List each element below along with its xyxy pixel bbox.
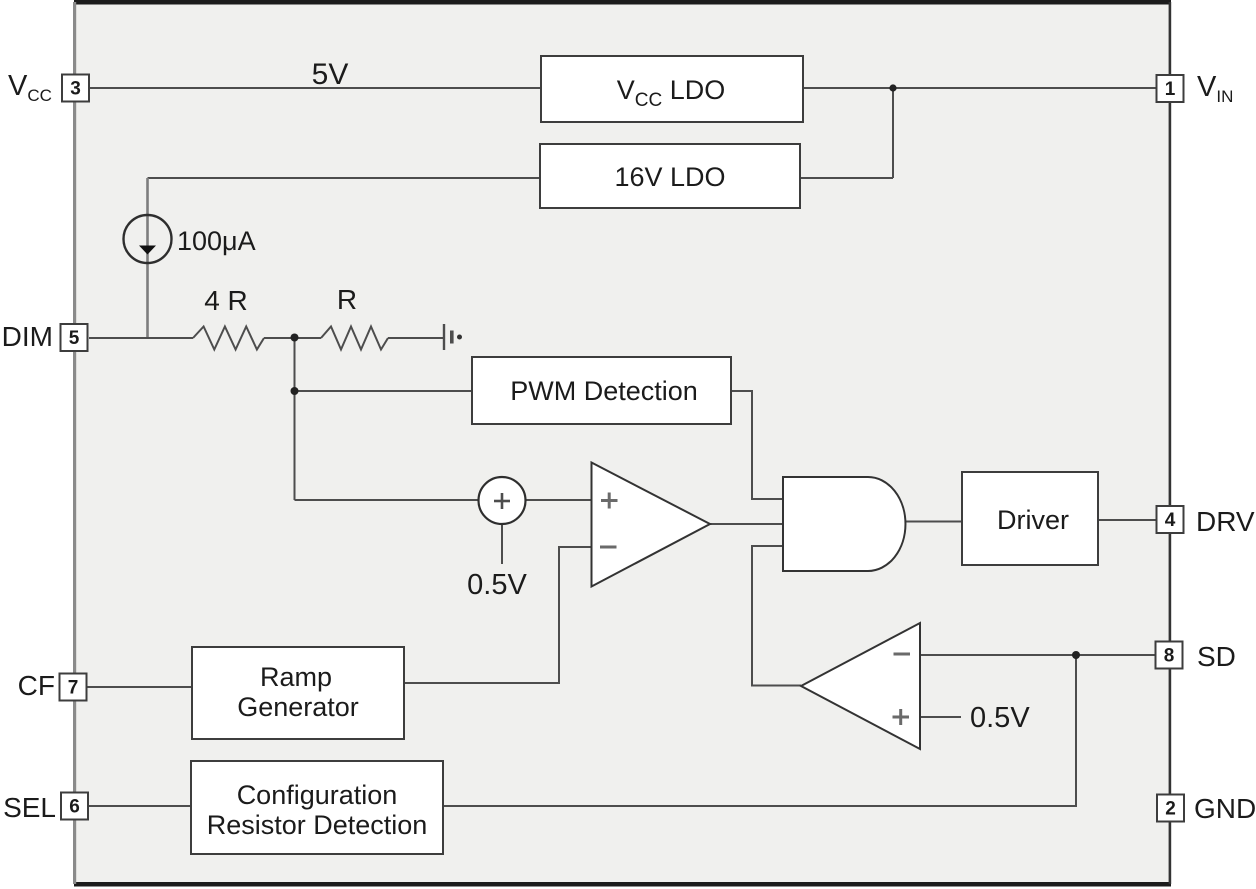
svg-text:5: 5	[69, 328, 80, 349]
svg-text:0.5V: 0.5V	[467, 569, 527, 601]
svg-text:0.5V: 0.5V	[970, 702, 1030, 734]
svg-text:Configuration: Configuration	[237, 780, 398, 810]
svg-text:7: 7	[68, 678, 79, 699]
svg-text:DIM: DIM	[2, 321, 53, 352]
svg-text:8: 8	[1164, 646, 1175, 667]
svg-text:GND: GND	[1194, 793, 1256, 824]
svg-text:SD: SD	[1197, 641, 1236, 672]
svg-text:Resistor Detection: Resistor Detection	[207, 810, 428, 840]
svg-text:R: R	[337, 284, 357, 315]
svg-text:4 R: 4 R	[204, 285, 248, 316]
svg-text:1: 1	[1165, 79, 1176, 100]
svg-text:CF: CF	[18, 670, 55, 701]
svg-text:100μA: 100μA	[177, 226, 256, 256]
svg-text:Driver: Driver	[997, 505, 1069, 535]
svg-text:Ramp: Ramp	[260, 662, 332, 692]
svg-text:SEL: SEL	[3, 792, 56, 823]
svg-text:PWM Detection: PWM Detection	[510, 376, 698, 406]
svg-text:16V LDO: 16V LDO	[614, 162, 725, 192]
svg-text:VCC: VCC	[8, 70, 52, 105]
svg-text:4: 4	[1165, 510, 1176, 531]
svg-text:3: 3	[70, 79, 81, 100]
svg-text:Generator: Generator	[237, 692, 359, 722]
svg-text:6: 6	[69, 797, 80, 818]
svg-text:DRV: DRV	[1196, 506, 1255, 537]
svg-text:5V: 5V	[312, 58, 349, 91]
svg-text:VIN: VIN	[1197, 71, 1233, 106]
svg-text:2: 2	[1165, 799, 1176, 820]
